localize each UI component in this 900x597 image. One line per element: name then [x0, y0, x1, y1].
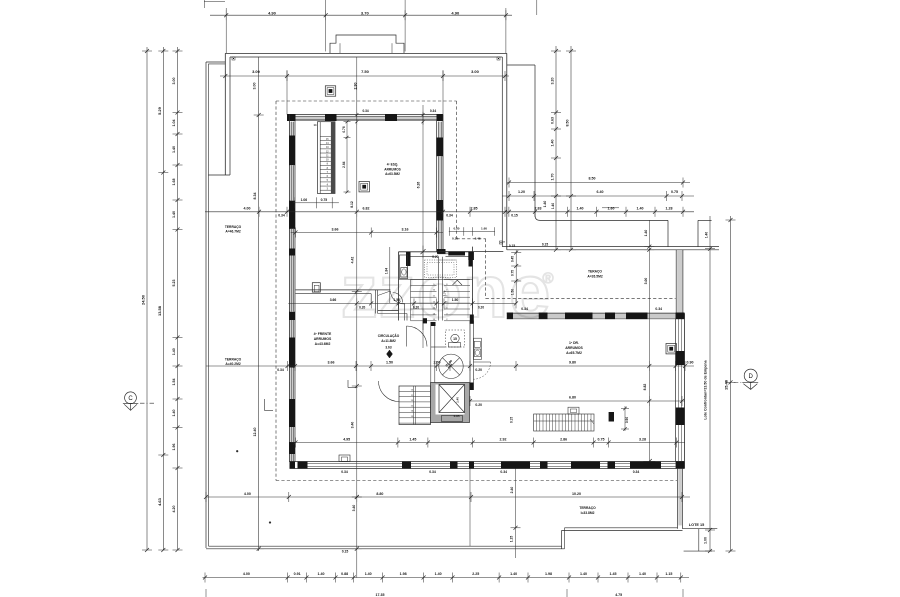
svg-text:LOTE 15: LOTE 15 — [689, 523, 704, 527]
svg-text:1.40: 1.40 — [705, 232, 709, 238]
svg-text:3.20: 3.20 — [551, 78, 555, 85]
svg-text:10.20: 10.20 — [572, 492, 581, 496]
svg-text:8.12: 8.12 — [350, 201, 354, 208]
svg-text:0.15: 0.15 — [542, 242, 548, 246]
svg-text:1.00: 1.00 — [704, 537, 708, 544]
svg-text:0.75: 0.75 — [598, 438, 605, 442]
svg-text:2.64: 2.64 — [342, 161, 346, 167]
svg-text:4.75: 4.75 — [615, 593, 622, 597]
svg-text:8.80: 8.80 — [376, 492, 383, 496]
svg-text:®: ® — [542, 270, 553, 287]
svg-text:7.50: 7.50 — [361, 69, 370, 74]
svg-text:1.40: 1.40 — [577, 207, 584, 211]
svg-text:6.26: 6.26 — [416, 182, 420, 189]
svg-text:1.84: 1.84 — [384, 268, 388, 274]
svg-text:TERRAÇO: TERRAÇO — [225, 358, 242, 362]
svg-text:0.15: 0.15 — [511, 214, 518, 218]
svg-text:2.40: 2.40 — [510, 487, 514, 494]
svg-text:1.50: 1.50 — [511, 289, 515, 295]
svg-text:0.15: 0.15 — [342, 550, 349, 554]
svg-text:0.63: 0.63 — [551, 117, 555, 124]
svg-text:6.80: 6.80 — [569, 396, 576, 400]
svg-text:1.28: 1.28 — [666, 207, 673, 211]
svg-text:3.00: 3.00 — [252, 69, 261, 74]
svg-text:0.90: 0.90 — [625, 417, 629, 423]
svg-text:1.68: 1.68 — [172, 179, 176, 186]
svg-text:4.90: 4.90 — [451, 10, 460, 15]
svg-text:ARRUMOS: ARRUMOS — [384, 167, 400, 171]
svg-text:3.63: 3.63 — [385, 346, 391, 350]
svg-text:1.98: 1.98 — [400, 572, 407, 576]
svg-text:12.40: 12.40 — [253, 428, 257, 437]
svg-text:1.40: 1.40 — [543, 201, 547, 208]
svg-text:1.45: 1.45 — [409, 438, 416, 442]
svg-text:1.04: 1.04 — [172, 120, 176, 127]
svg-text:3.66: 3.66 — [332, 227, 339, 231]
svg-text:A=63.5M2: A=63.5M2 — [385, 172, 400, 176]
svg-text:8.34: 8.34 — [253, 193, 257, 200]
svg-text:4º FRENTE: 4º FRENTE — [314, 332, 332, 336]
svg-text:0.20: 0.20 — [478, 305, 484, 309]
svg-text:15.48: 15.48 — [724, 379, 729, 390]
svg-text:2.25: 2.25 — [472, 572, 479, 576]
svg-text:TERRAÇO: TERRAÇO — [579, 506, 596, 510]
svg-text:3.40: 3.40 — [351, 422, 355, 429]
svg-text:3.70: 3.70 — [361, 10, 370, 15]
svg-text:3.00: 3.00 — [644, 278, 648, 285]
svg-text:3.66: 3.66 — [328, 361, 335, 365]
svg-text:1.40: 1.40 — [172, 348, 176, 355]
svg-text:TERRAÇO: TERRAÇO — [225, 225, 242, 229]
svg-text:1.96: 1.96 — [172, 444, 176, 451]
svg-text:2.85: 2.85 — [471, 207, 478, 211]
svg-text:0.45: 0.45 — [511, 256, 515, 262]
svg-text:D: D — [749, 374, 754, 380]
svg-text:0.75: 0.75 — [321, 198, 328, 202]
svg-text:3.00: 3.00 — [253, 83, 257, 90]
svg-text:0.34: 0.34 — [341, 470, 348, 474]
svg-text:4.00: 4.00 — [243, 572, 250, 576]
svg-text:1.40: 1.40 — [365, 572, 372, 576]
svg-text:15: 15 — [453, 337, 457, 341]
svg-text:0.34: 0.34 — [521, 307, 528, 311]
svg-text:0.75: 0.75 — [671, 190, 678, 194]
svg-text:8.50: 8.50 — [589, 177, 596, 181]
svg-text:1.15: 1.15 — [665, 572, 672, 576]
svg-text:8.50: 8.50 — [566, 120, 570, 127]
svg-text:1.40: 1.40 — [551, 140, 555, 147]
svg-text:CIRCULAÇÃO: CIRCULAÇÃO — [378, 333, 400, 338]
svg-text:2.92: 2.92 — [500, 438, 507, 442]
svg-text:3.40: 3.40 — [352, 505, 356, 512]
svg-text:1.40: 1.40 — [637, 207, 644, 211]
svg-text:A=40.2M2: A=40.2M2 — [225, 362, 240, 366]
svg-text:1.40: 1.40 — [318, 572, 325, 576]
svg-text:0.20: 0.20 — [475, 403, 482, 407]
svg-text:4.63: 4.63 — [157, 497, 162, 506]
svg-text:0.15: 0.15 — [509, 244, 515, 248]
svg-text:1.40: 1.40 — [644, 230, 648, 237]
svg-text:A=43.6M2: A=43.6M2 — [315, 342, 331, 346]
svg-text:0.88: 0.88 — [341, 572, 348, 576]
svg-text:0.90: 0.90 — [687, 361, 694, 365]
svg-text:1.54: 1.54 — [172, 379, 176, 386]
svg-text:1.06: 1.06 — [301, 198, 308, 202]
svg-text:1.40: 1.40 — [172, 146, 176, 153]
svg-text:0.34: 0.34 — [429, 470, 436, 474]
svg-text:4.95: 4.95 — [343, 438, 350, 442]
svg-text:0.20: 0.20 — [432, 255, 438, 259]
svg-text:1.40: 1.40 — [551, 203, 555, 209]
svg-text:TERAÇO: TERAÇO — [588, 270, 602, 274]
svg-text:0.76: 0.76 — [342, 126, 346, 132]
svg-text:A=65.7M2: A=65.7M2 — [566, 351, 582, 355]
svg-text:0.75: 0.75 — [511, 270, 515, 276]
svg-text:A=11.8M2: A=11.8M2 — [381, 339, 396, 343]
svg-text:Lote Confrontan=13.50 de Empen: Lote Confrontan=13.50 de Empena — [704, 359, 708, 419]
svg-text:4.00: 4.00 — [244, 207, 251, 211]
svg-text:1.50: 1.50 — [452, 298, 459, 302]
svg-text:5.23: 5.23 — [172, 280, 176, 287]
svg-text:0.34: 0.34 — [633, 470, 640, 474]
svg-text:1.70: 1.70 — [551, 174, 555, 181]
svg-text:ARRUMOS: ARRUMOS — [565, 346, 583, 350]
svg-text:0.91: 0.91 — [294, 572, 301, 576]
svg-text:0.20: 0.20 — [475, 368, 482, 372]
svg-text:3.66: 3.66 — [330, 298, 337, 302]
svg-text:1º DR.: 1º DR. — [569, 341, 579, 345]
svg-text:1.40: 1.40 — [435, 572, 442, 576]
svg-text:1.50: 1.50 — [386, 361, 393, 365]
svg-text:0.15: 0.15 — [510, 417, 514, 423]
svg-text:1.40: 1.40 — [172, 410, 176, 417]
svg-text:1.45: 1.45 — [610, 572, 617, 576]
svg-text:3.28: 3.28 — [639, 438, 646, 442]
svg-text:24.50: 24.50 — [141, 294, 146, 305]
svg-text:9.80: 9.80 — [569, 361, 576, 365]
svg-text:0.20: 0.20 — [453, 227, 459, 231]
svg-text:2.86: 2.86 — [560, 438, 567, 442]
svg-text:1.40: 1.40 — [456, 397, 460, 403]
svg-text:0.95: 0.95 — [454, 414, 460, 418]
svg-text:3.00: 3.00 — [471, 69, 480, 74]
svg-text:1.98: 1.98 — [545, 572, 552, 576]
svg-text:1.40: 1.40 — [172, 211, 176, 218]
svg-text:1.40: 1.40 — [639, 572, 646, 576]
svg-text:4º ESQ.: 4º ESQ. — [387, 163, 399, 167]
svg-text:A=26.5M2: A=26.5M2 — [587, 275, 602, 279]
svg-text:5.29: 5.29 — [157, 106, 162, 115]
svg-text:0.34: 0.34 — [278, 214, 285, 218]
svg-text:0.34: 0.34 — [362, 109, 368, 113]
svg-text:C: C — [128, 396, 133, 402]
svg-text:2.83: 2.83 — [535, 207, 542, 211]
svg-text:0.20: 0.20 — [413, 305, 419, 309]
svg-text:0.34: 0.34 — [655, 307, 662, 311]
svg-text:13.58: 13.58 — [157, 305, 162, 316]
svg-text:3.00: 3.00 — [172, 78, 176, 85]
svg-text:4.90: 4.90 — [268, 10, 277, 15]
svg-text:1.40: 1.40 — [580, 572, 587, 576]
svg-text:0.34: 0.34 — [430, 109, 436, 113]
svg-text:17.35: 17.35 — [376, 593, 385, 597]
svg-text:1.60: 1.60 — [481, 227, 487, 231]
svg-text:0.45: 0.45 — [475, 236, 481, 240]
svg-text:0.34: 0.34 — [277, 368, 284, 372]
svg-text:8.82: 8.82 — [643, 384, 647, 391]
svg-text:3.16: 3.16 — [402, 227, 409, 231]
svg-text:1.40: 1.40 — [510, 572, 517, 576]
svg-text:4.20: 4.20 — [172, 506, 176, 513]
svg-text:0.16: 0.16 — [452, 236, 458, 240]
svg-text:6.82: 6.82 — [363, 207, 370, 211]
svg-text:1.15: 1.15 — [510, 536, 514, 543]
svg-text:6.40: 6.40 — [597, 190, 604, 194]
svg-text:A=46.7M2: A=46.7M2 — [225, 230, 240, 234]
svg-text:0.20: 0.20 — [359, 305, 365, 309]
svg-text:4.42: 4.42 — [351, 257, 355, 264]
svg-text:1.20: 1.20 — [518, 190, 525, 194]
svg-text:I=33.8M2: I=33.8M2 — [581, 511, 595, 515]
svg-text:0.34: 0.34 — [500, 470, 507, 474]
svg-text:0.34: 0.34 — [446, 214, 453, 218]
svg-text:1.60: 1.60 — [608, 207, 615, 211]
svg-text:4.00: 4.00 — [244, 492, 251, 496]
svg-text:ARRUMOS: ARRUMOS — [314, 337, 332, 341]
